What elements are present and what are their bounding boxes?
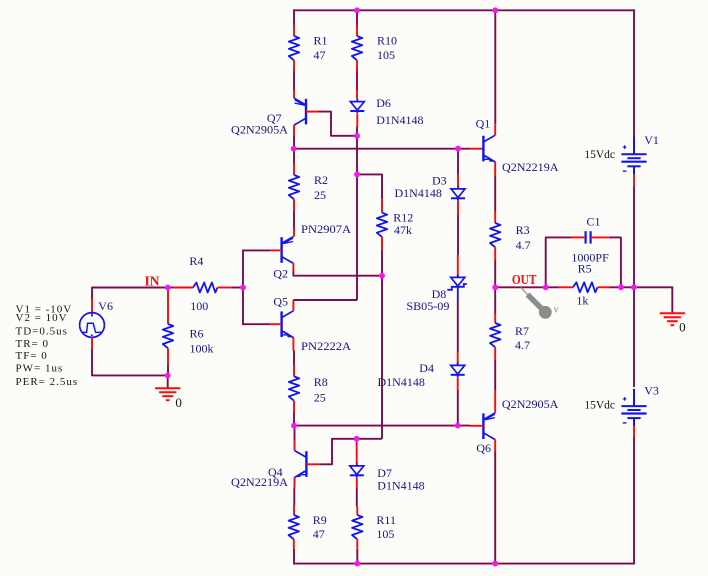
wire R8 to Q4 node (293, 413, 295, 427)
ground 0 at input (155, 375, 182, 410)
junction dot 7 (379, 273, 385, 279)
svg-text:PW= 1us: PW= 1us (16, 363, 64, 375)
node wire D6 to R12 tap vertical (356, 127, 358, 300)
wire Q2 collector to R12 bottom node (293, 271, 382, 276)
svg-text:47k: 47k (394, 223, 412, 237)
long wire Q4 node to Q6 base (294, 425, 470, 427)
wire D7 to R11 (356, 487, 358, 506)
transistor Q6 (470, 390, 559, 455)
wire top rail to R1 (293, 9, 295, 25)
resistor R3 (490, 176, 531, 288)
svg-text:V2 = 10V: V2 = 10V (16, 312, 68, 324)
svg-text:Q2N2219A: Q2N2219A (502, 160, 559, 174)
IN column vertical wire (242, 250, 244, 326)
junction dot 2 (492, 7, 498, 13)
resistor R2 (289, 149, 328, 211)
svg-text:Q2N2905A: Q2N2905A (231, 123, 288, 137)
junction dot 15 (291, 423, 297, 429)
wire R10 to D6 (356, 71, 358, 90)
wire OUT row to power rail and ground stub (621, 286, 672, 288)
wire Q7 collector drop (293, 136, 295, 149)
svg-text:TR= 0: TR= 0 (16, 338, 50, 350)
junction dot 17 (354, 436, 360, 442)
bottom rail wire (294, 563, 635, 565)
svg-text:Q6: Q6 (476, 441, 491, 455)
wire D4 to Q6 base node (457, 390, 459, 426)
junction dot 14 (631, 284, 637, 290)
diode D7 (350, 440, 425, 493)
wire Q4 base path (320, 439, 383, 465)
junction dot 11 (492, 284, 498, 290)
diode D4 (378, 352, 465, 391)
svg-text:Q2N2905A: Q2N2905A (502, 397, 559, 411)
wire V3 to bottom rail (633, 437, 635, 565)
junction dot 9 (165, 285, 171, 291)
svg-text:105: 105 (376, 527, 394, 541)
Q1 base lead (470, 148, 483, 150)
wire Q5 base to IN column (243, 323, 270, 325)
svg-text:C1: C1 (587, 215, 601, 229)
junction dot 3 (291, 146, 297, 152)
schottky diode D8 (406, 255, 466, 313)
wire Q5 emitter to R8 (293, 351, 295, 366)
wire top rail to R10 (356, 9, 358, 25)
resistor R7 (490, 287, 530, 390)
transistor Q7 (231, 90, 319, 137)
svg-text:Q1: Q1 (476, 117, 491, 131)
svg-text:100k: 100k (190, 342, 214, 356)
svg-text:IN: IN (145, 273, 160, 288)
junction dot 13 (618, 284, 624, 290)
svg-text:R7: R7 (515, 324, 529, 338)
svg-text:15Vdc: 15Vdc (584, 149, 615, 161)
wire Q2 base to IN column (243, 249, 270, 251)
wire R1 to Q7 emitter (293, 71, 295, 90)
transistor Q2 (270, 222, 351, 281)
junction dot 4 (455, 146, 461, 152)
diode D6 (350, 90, 423, 127)
transistor Q5 (270, 295, 351, 354)
svg-text:D1N4148: D1N4148 (377, 479, 424, 493)
svg-text:100: 100 (190, 299, 208, 313)
svg-text:SB05-09: SB05-09 (406, 299, 449, 313)
wire Q1 collector to top rail (494, 10, 496, 124)
wire Q7 base to D6 node (319, 112, 358, 136)
junction dot 6 (354, 172, 360, 178)
voltage probe marker at OUT (521, 288, 560, 319)
resistor R6 (163, 289, 214, 375)
diode column D3 (395, 149, 466, 215)
wire OUT node to R5 (495, 286, 558, 288)
svg-text:TF= 0: TF= 0 (16, 350, 48, 362)
svg-text:R8: R8 (314, 375, 328, 389)
svg-text:R1: R1 (314, 34, 328, 48)
transistor Q1 (476, 117, 559, 176)
node A horizontal wire to Q1 base (294, 148, 471, 150)
svg-text:v: v (554, 305, 560, 316)
wire R11 to bottom rail (356, 549, 358, 564)
wire Q6 collector to bottom rail (494, 452, 496, 564)
wire V6 bottom to ground node (92, 350, 168, 376)
svg-text:V1: V1 (644, 133, 659, 147)
horizontal resistor R5 (559, 262, 621, 308)
capacitor C1 (571, 215, 609, 265)
svg-text:15Vdc: 15Vdc (584, 400, 615, 412)
svg-text:0: 0 (679, 320, 686, 335)
svg-text:R11: R11 (376, 513, 396, 527)
resistor R11 (352, 507, 396, 549)
svg-text:D1N4148: D1N4148 (376, 113, 423, 127)
resistor R10 (352, 25, 397, 71)
wire IN node to R4 (168, 287, 173, 289)
wire R9 to bottom rail (293, 549, 295, 565)
svg-text:R4: R4 (189, 254, 203, 268)
junction dot 8 (240, 285, 246, 291)
wire V6 to IN node (92, 288, 168, 300)
svg-text:R3: R3 (516, 223, 530, 237)
wire Q5 collector to mid column (293, 299, 357, 301)
svg-text:25: 25 (314, 188, 326, 202)
wire R2 to Q2 emitter (293, 211, 295, 228)
svg-text:PER= 2.5us: PER= 2.5us (16, 376, 79, 388)
svg-text:D1N4148: D1N4148 (395, 186, 442, 200)
svg-text:OUT: OUT (512, 272, 537, 287)
svg-text:47: 47 (314, 48, 326, 62)
wire R12 bottom to node (381, 250, 383, 276)
svg-text:R10: R10 (377, 34, 397, 48)
junction dot 18 (354, 561, 360, 567)
wire R12 tap (357, 174, 382, 199)
svg-text:47: 47 (313, 527, 325, 541)
wire V1 to V3 rail (633, 186, 635, 387)
svg-text:PN2222A: PN2222A (301, 339, 351, 353)
svg-text:D4: D4 (419, 361, 434, 375)
svg-text:25: 25 (314, 391, 326, 405)
svg-text:4.7: 4.7 (516, 238, 531, 252)
resistor R1 (289, 25, 328, 71)
junction dot 10 (165, 373, 171, 379)
svg-text:V3: V3 (644, 384, 659, 398)
svg-text:1000PF: 1000PF (571, 251, 609, 265)
horizontal resistor R4 (173, 254, 243, 313)
battery V3 (584, 384, 659, 438)
svg-text:D6: D6 (376, 96, 391, 110)
transistor Q4 (231, 426, 320, 489)
svg-text:Q5: Q5 (273, 295, 288, 309)
svg-text:V6: V6 (98, 299, 113, 313)
battery V1 (584, 133, 659, 186)
junction dot 19 (492, 561, 498, 567)
svg-text:D1N4148: D1N4148 (378, 375, 425, 389)
resistor R9 (289, 505, 327, 549)
wire Q4 emitter to R9 (293, 487, 295, 505)
svg-text:105: 105 (377, 48, 395, 62)
vertical wire R12 node down to Q4 base path (381, 275, 383, 439)
resistor R12 (377, 199, 414, 250)
top power rail wire (294, 9, 635, 11)
capacitor C1 branch wires (546, 237, 571, 287)
wire top rail to V1 (633, 9, 635, 137)
svg-text:Q2: Q2 (273, 267, 288, 281)
wire D3 to D8 (457, 215, 459, 255)
junction dot 16 (455, 423, 461, 429)
svg-text:0: 0 (175, 395, 182, 410)
junction dot 5 (354, 133, 360, 139)
wire D8 to D4 (457, 300, 459, 352)
svg-text:Q2N2219A: Q2N2219A (231, 475, 288, 489)
svg-text:R2: R2 (314, 173, 328, 187)
resistor R8 (289, 365, 328, 413)
svg-text:TD=0.5us: TD=0.5us (16, 325, 68, 337)
svg-text:1k: 1k (576, 294, 588, 308)
parameter text block for V6 (16, 303, 79, 388)
svg-text:4.7: 4.7 (515, 338, 530, 352)
pulse source V6 (80, 299, 113, 350)
junction dot 12 (543, 284, 549, 290)
ground 0 at output (660, 286, 686, 334)
junction dot 1 (354, 7, 360, 13)
svg-text:R6: R6 (190, 327, 204, 341)
svg-text:PN2907A: PN2907A (301, 222, 351, 236)
svg-text:R9: R9 (313, 513, 327, 527)
